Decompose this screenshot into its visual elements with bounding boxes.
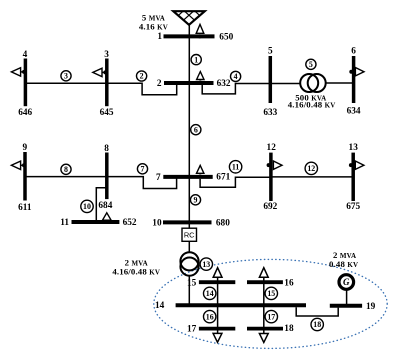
generator G (339, 275, 354, 290)
svg-text:2: 2 (157, 79, 162, 89)
line segment number 14 (204, 287, 216, 299)
svg-text:632: 632 (217, 79, 231, 89)
svg-text:4.16/0.48 KV: 4.16/0.48 KV (112, 266, 160, 276)
load arrow bus 675 (349, 161, 364, 169)
svg-text:12: 12 (267, 143, 277, 153)
line segment number 1 (191, 55, 201, 65)
line segment number 16 (204, 310, 216, 322)
wire: 671 to 692 (200, 177, 271, 187)
line segment number 2 (137, 71, 147, 81)
svg-text:G: G (343, 277, 350, 287)
svg-text:4.16/0.48 KV: 4.16/0.48 KV (288, 99, 336, 109)
svg-text:1: 1 (194, 55, 198, 64)
svg-text:18: 18 (284, 324, 294, 334)
svg-text:680: 680 (216, 219, 230, 229)
svg-text:17: 17 (267, 312, 275, 321)
bus 16 (247, 280, 283, 284)
wire: 14 to 19 (296, 307, 338, 316)
svg-text:RC: RC (184, 231, 195, 240)
wire: RC to transformer XFM1 (188, 241, 190, 252)
svg-text:15: 15 (267, 289, 275, 298)
recloser RC (182, 228, 197, 241)
line segment number 10 (81, 200, 93, 212)
svg-text:3: 3 (64, 72, 68, 81)
load arrow bus 634 (349, 68, 364, 76)
bus 650 (node 1) (164, 34, 215, 38)
svg-text:12: 12 (307, 164, 315, 173)
svg-text:15: 15 (187, 278, 197, 288)
svg-text:634: 634 (347, 107, 361, 117)
svg-text:6: 6 (351, 47, 356, 57)
load delta on bus 652 (103, 213, 112, 220)
bus 9 (611) (23, 152, 27, 201)
svg-text:650: 650 (219, 33, 233, 43)
bus 19 (330, 304, 362, 308)
svg-text:6: 6 (194, 125, 198, 134)
svg-text:9: 9 (22, 143, 27, 153)
wire: 646-645-632 (25, 83, 176, 95)
bus 6 (634) (352, 56, 356, 103)
bus 14 (176, 303, 306, 307)
svg-text:5: 5 (309, 60, 313, 69)
line segment number 4 (231, 71, 241, 81)
svg-text:2: 2 (140, 72, 144, 81)
bus 13 (675) (351, 153, 355, 201)
bus 7 (671) (163, 175, 212, 179)
svg-text:4: 4 (23, 50, 28, 60)
svg-text:1: 1 (157, 32, 162, 42)
bus 10 (680) (163, 220, 212, 224)
svg-text:13: 13 (202, 260, 210, 269)
load arrow below bus 18 (259, 334, 268, 343)
svg-text:684: 684 (98, 201, 112, 211)
load arrow bus 611 (11, 161, 26, 169)
svg-text:10: 10 (152, 219, 162, 229)
bus 12 (692) (269, 153, 273, 201)
transformer number 5 (306, 59, 316, 69)
svg-text:16: 16 (284, 278, 294, 288)
svg-text:17: 17 (187, 325, 197, 335)
svg-text:675: 675 (346, 202, 360, 212)
svg-text:633: 633 (263, 108, 277, 118)
svg-text:11: 11 (232, 163, 240, 172)
line segment number 9 (190, 195, 200, 205)
bus 17 (199, 327, 235, 331)
svg-text:5: 5 (268, 47, 273, 57)
load delta on bus 650 (196, 24, 204, 33)
line segment number 18 (311, 318, 323, 330)
bus 4 (646) (24, 59, 28, 107)
bus 11 (652) (72, 220, 120, 224)
line segment number 7 (137, 164, 147, 174)
transformer number 13 (200, 258, 212, 270)
svg-text:10: 10 (83, 202, 91, 211)
load arrow bus 645 (93, 68, 108, 76)
svg-text:11: 11 (60, 218, 69, 228)
load delta on bus 632 (197, 72, 204, 80)
svg-text:14: 14 (206, 289, 214, 298)
svg-text:645: 645 (100, 108, 114, 118)
bus 8 (684) (105, 153, 109, 200)
wire: main feeder 650 to 680 (188, 25, 190, 228)
source arrow above bus 15 (213, 268, 222, 278)
svg-text:13: 13 (349, 143, 359, 153)
wire: 684 to 652 (96, 188, 107, 220)
bus 15 (199, 280, 235, 284)
wire: G to bus 19 (346, 290, 348, 306)
svg-text:646: 646 (18, 108, 32, 118)
svg-text:4: 4 (234, 72, 238, 81)
svg-text:8: 8 (104, 144, 109, 154)
wire: XFM1 to bus 14 (188, 276, 190, 306)
load arrow bus 646 (11, 68, 26, 76)
load delta on bus 671 (197, 165, 204, 173)
load arrow below bus 17 (213, 333, 222, 342)
microgrid boundary ellipse (154, 259, 387, 348)
line segment number 15 (265, 287, 277, 299)
bus 5 (633) (269, 56, 273, 103)
wire: 632 to 633 (202, 84, 300, 94)
svg-text:16: 16 (206, 312, 214, 321)
svg-text:7: 7 (156, 173, 161, 183)
svg-text:18: 18 (313, 320, 321, 329)
wire: 611-684-671 (25, 177, 177, 189)
wire: vertical 16-14-18 (263, 277, 265, 338)
svg-text:671: 671 (216, 173, 230, 183)
wire: 692 to 675 (271, 176, 353, 178)
wire: vertical 15-14-17 (217, 277, 219, 338)
line segment number 11 (229, 161, 241, 173)
utility source grid symbol (167, 11, 210, 26)
line segment number 12 (305, 162, 317, 174)
svg-text:19: 19 (366, 302, 376, 312)
svg-text:652: 652 (123, 218, 137, 228)
svg-text:611: 611 (18, 203, 32, 213)
line segment number 17 (265, 310, 277, 322)
transformer 633-634 (300, 74, 326, 92)
bus 632 (node 2) (164, 81, 214, 85)
wire: transformer to 634 (326, 82, 354, 84)
svg-text:3: 3 (104, 50, 109, 60)
svg-text:8: 8 (64, 165, 68, 174)
bus 18 (247, 327, 283, 331)
line segment number 6 (191, 125, 201, 135)
svg-text:9: 9 (194, 196, 198, 205)
line segment number 3 (61, 71, 71, 81)
line segment number 8 (61, 164, 71, 174)
load arrow bus 692 (267, 161, 282, 169)
transformer XFM1 (180, 252, 198, 276)
bus 3 (645) (105, 59, 109, 107)
svg-text:0.48 KV: 0.48 KV (329, 259, 358, 269)
svg-text:692: 692 (263, 202, 277, 212)
source arrow above bus 16 (259, 268, 268, 278)
svg-text:14: 14 (155, 301, 165, 311)
svg-text:7: 7 (141, 165, 145, 174)
svg-text:4.16 KV: 4.16 KV (139, 22, 168, 32)
